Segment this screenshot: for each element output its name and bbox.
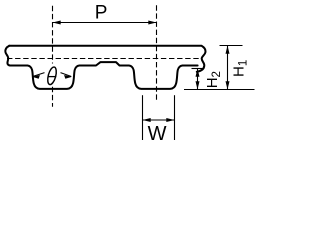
baseline under H dims — [184, 89, 255, 91]
P arrow — [53, 22, 157, 24]
W extension line right — [174, 95, 176, 140]
left break edge — [5, 46, 11, 66]
H2 arrow — [197, 69, 199, 90]
H1 top tick — [220, 45, 243, 47]
theta arrow right — [61, 73, 72, 77]
W extension line left — [142, 95, 144, 140]
center line tooth 1 (dashed vertical) — [52, 6, 54, 107]
svg-text:P: P — [95, 3, 108, 24]
svg-text:W: W — [148, 123, 167, 145]
W arrow — [143, 119, 175, 121]
pitch line (dashed horizontal) — [7, 58, 200, 60]
H1 arrow — [227, 46, 229, 90]
H2 top tick — [192, 68, 205, 70]
theta arrow left — [33, 73, 45, 77]
angle theta label — [45, 64, 59, 87]
bottom land + teeth outline — [11, 62, 198, 89]
belt profile outline — [9, 46, 205, 72]
center line tooth 2 (dashed vertical) — [156, 5, 158, 101]
